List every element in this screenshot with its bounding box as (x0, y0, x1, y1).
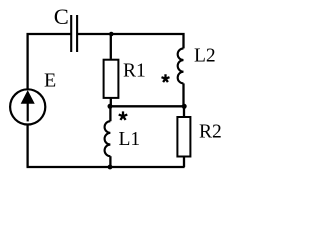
inductor L1 lead top (109, 106, 111, 121)
wire left lower: source to bottom-left corner (26, 125, 28, 167)
svg-text:L1: L1 (119, 129, 141, 150)
source E arrow (27, 101, 29, 121)
svg-text:L2: L2 (194, 46, 216, 67)
source E circle (10, 89, 45, 124)
inductor L1 lead bottom (109, 156, 111, 167)
resistor R2 lead bottom (183, 157, 185, 168)
resistor R2 body (177, 117, 190, 157)
wire middle horizontal (110, 105, 184, 107)
wire bottom (27, 166, 185, 168)
resistor R1 lead top (110, 34, 112, 59)
svg-text:R2: R2 (199, 122, 222, 143)
inductor L2 coil (178, 48, 184, 83)
svg-text:R1: R1 (123, 60, 146, 81)
resistor R1 lead bottom (110, 98, 112, 106)
resistor R1 body (104, 60, 119, 98)
junction node bottom (L1 / bottom wire) (108, 165, 113, 170)
resistor R2 lead top (183, 106, 185, 117)
junction node mid-right (L2/R2/middle wire) (182, 104, 187, 109)
svg-text:E: E (44, 70, 56, 92)
wire top-left: left corner to capacitor (28, 34, 71, 89)
capacitor C plates (71, 15, 77, 52)
inductor L1 coil (105, 121, 111, 156)
coupling mark asterisk at L2 (162, 74, 170, 82)
coupling mark asterisk at L1 (119, 111, 128, 120)
junction node top (R1 / top wire) (109, 32, 114, 37)
junction node mid-left (R1/L1/middle wire) (108, 104, 113, 109)
wire right: L2 to mid junction (182, 83, 184, 106)
wire top-right: capacitor to top-right corner (77, 34, 183, 48)
svg-text:C: C (54, 4, 69, 29)
